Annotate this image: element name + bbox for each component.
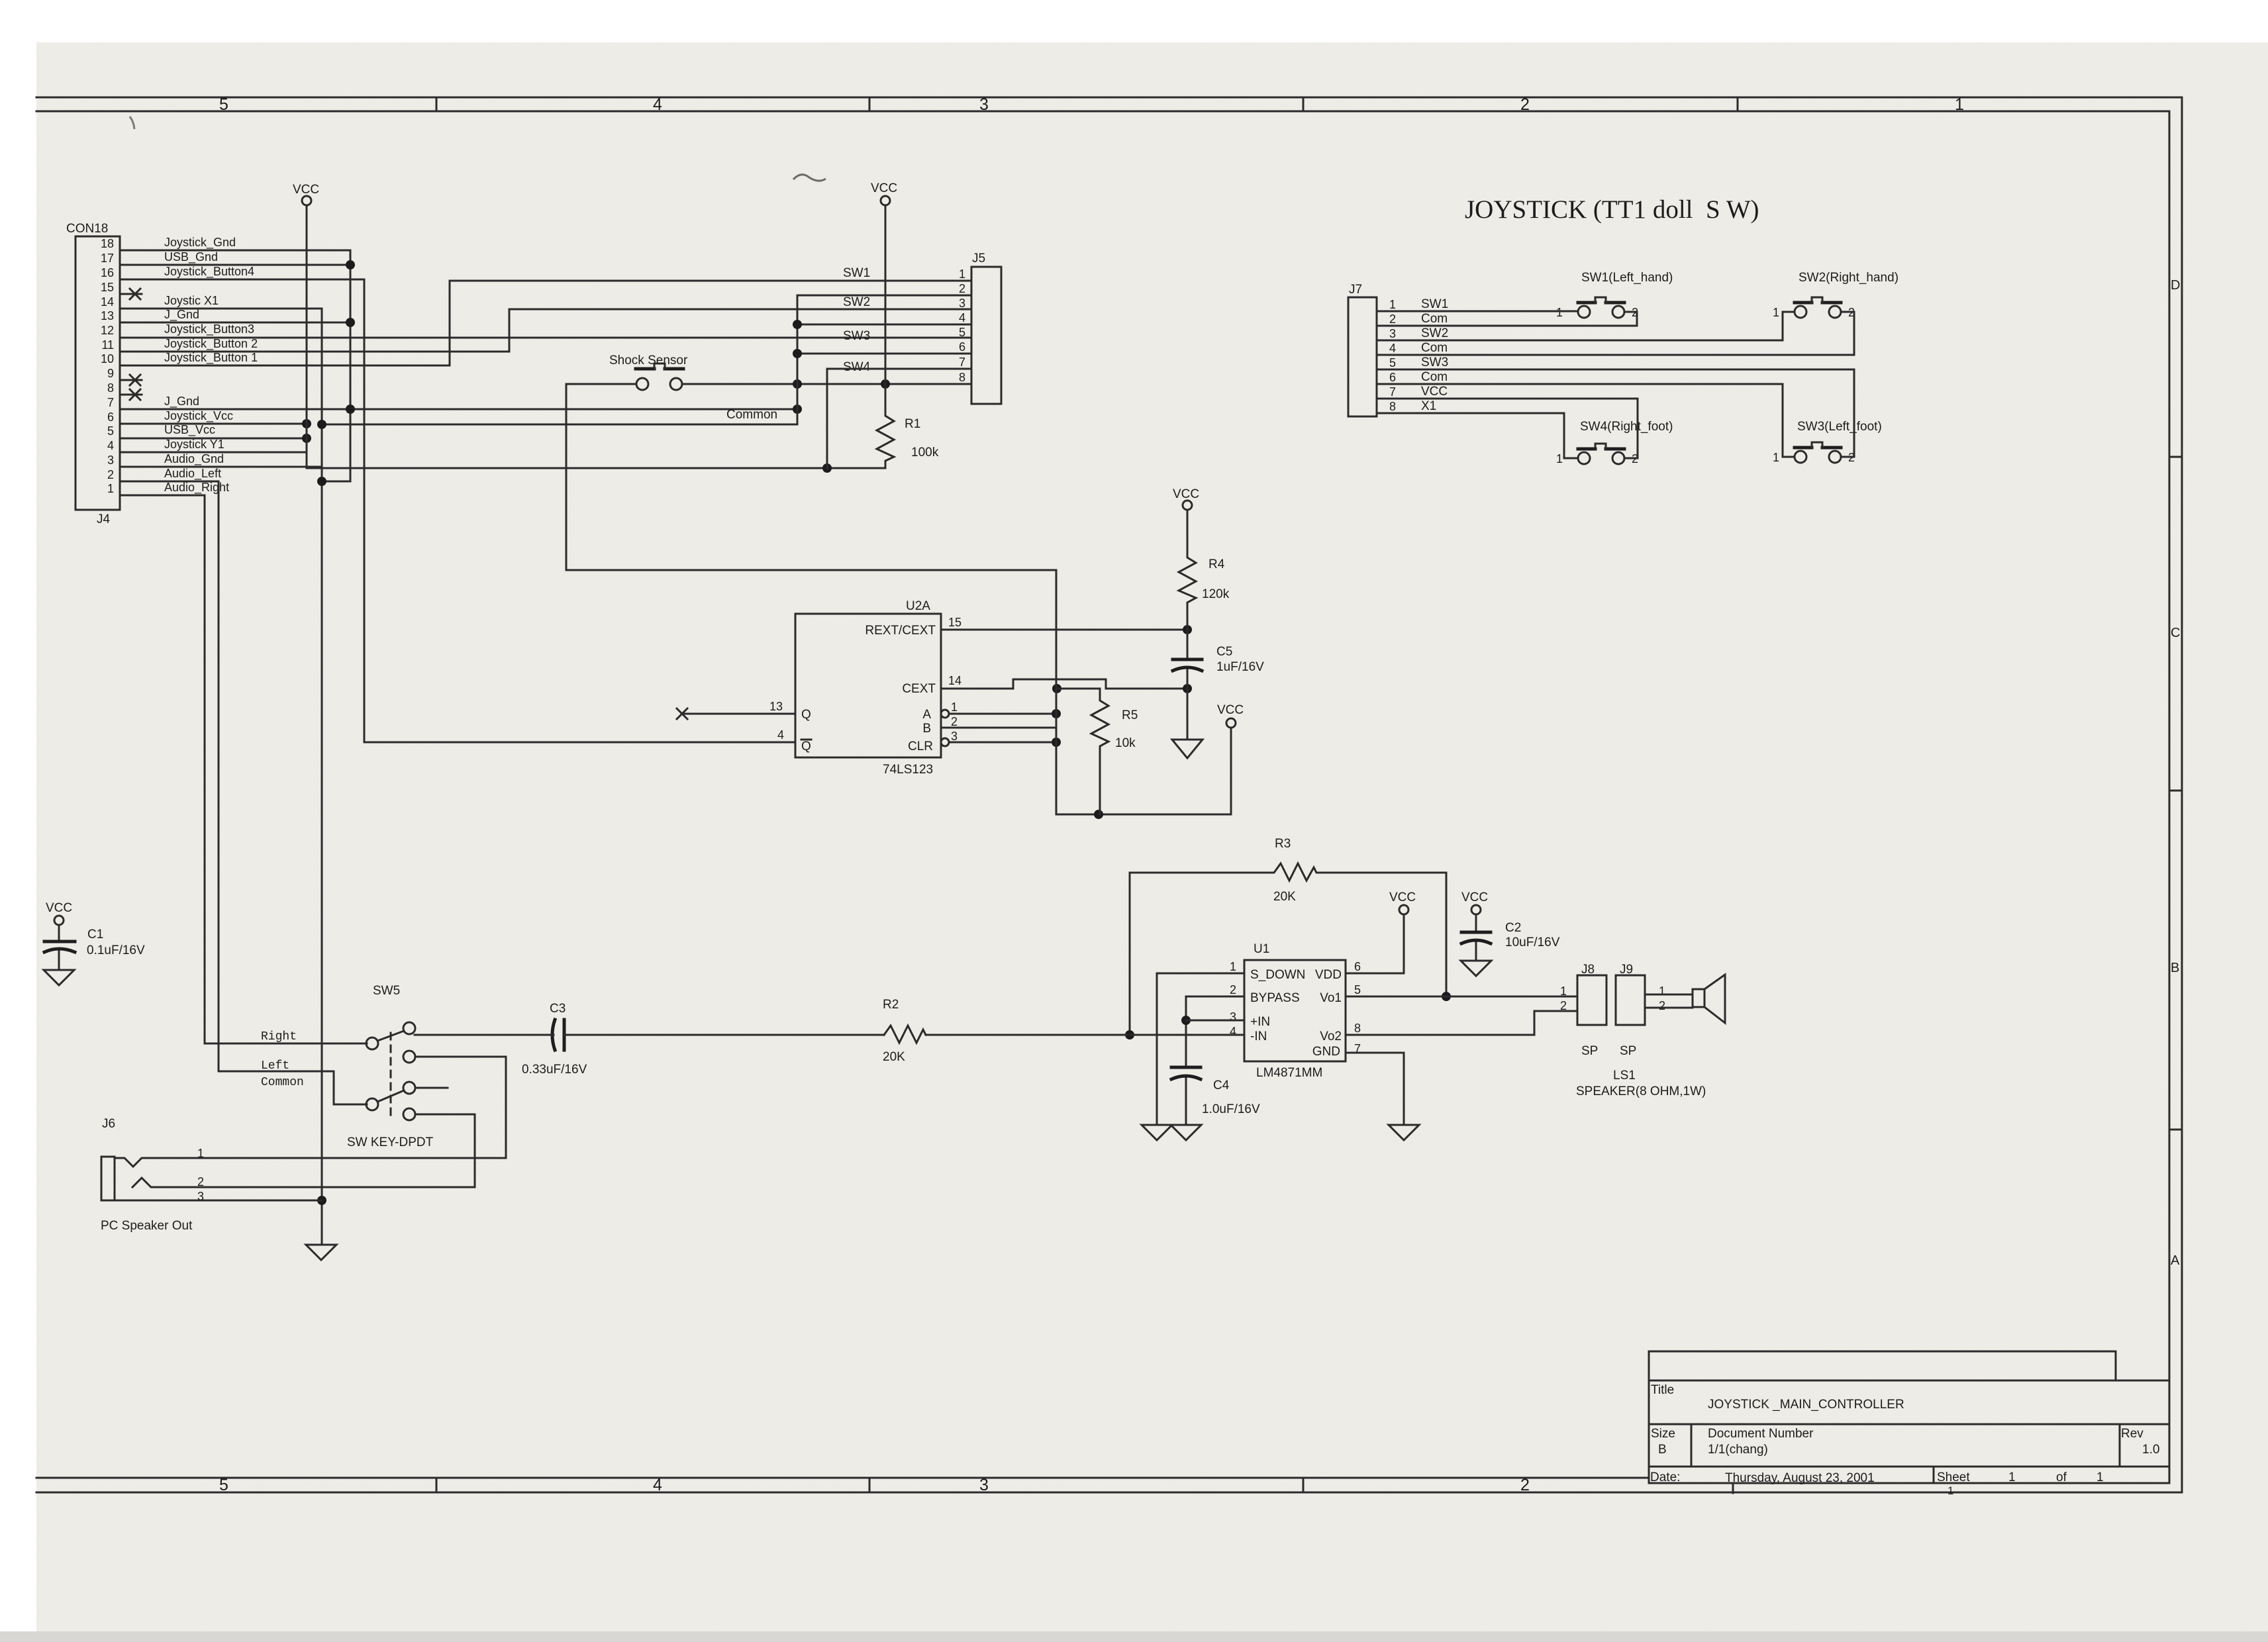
svg-text:J7: J7 [1349,283,1362,297]
svg-text:Vo1: Vo1 [1320,991,1342,1005]
svg-text:4: 4 [1389,342,1396,355]
wire USB_Gnd pin17 [120,260,355,269]
svg-text:7: 7 [959,356,965,369]
svg-text:74LS123: 74LS123 [883,763,933,777]
wire Joystic X1 down at 486 [120,309,326,1245]
svg-text:J8: J8 [1581,963,1595,977]
wire J5 pin8 shock sensor row [682,379,971,389]
power VCC above R4 [1173,487,1199,510]
svg-text:Com: Com [1421,341,1448,355]
svg-text:4: 4 [777,728,784,742]
connector J7 net labels [1421,297,1448,413]
connector J4 CON18 body [66,222,120,526]
resistor R1 [877,384,939,468]
svg-text:4: 4 [1230,1025,1236,1038]
svg-text:1: 1 [951,700,958,714]
power VCC at C2 [1461,891,1488,914]
svg-text:C1: C1 [87,928,103,942]
wire Joystick_Gnd pin18 to ground bus [120,250,350,481]
svg-text:6: 6 [959,340,965,354]
svg-text:C4: C4 [1213,1079,1230,1092]
svg-text:Joystick_Button 2: Joystick_Button 2 [164,337,258,351]
svg-text:CEXT: CEXT [902,682,936,696]
wire Audio_Gnd pin3 [120,466,322,468]
wire trigger vertical A/B/CLR [1056,570,1231,819]
connector J4 pin numbers [101,237,114,495]
svg-text:14: 14 [101,295,114,309]
wire pin3 +IN [1186,1020,1244,1022]
svg-text:Title: Title [1651,1383,1674,1397]
svg-text:2: 2 [959,282,965,295]
svg-text:X1: X1 [1421,399,1436,413]
svg-text:4: 4 [959,311,965,324]
svg-text:Right: Right [261,1030,297,1043]
wire J5 pin4 [797,324,971,326]
svg-text:3: 3 [959,297,965,310]
wire SW2 pin2 to J7 pin4 [1377,312,1854,355]
svg-text:8: 8 [1389,400,1396,413]
no-connect stub pin 15 [120,289,142,299]
wire R3 right leg to Vo1 [1442,873,1451,1001]
svg-text:A: A [2171,1253,2180,1268]
svg-text:Document Number: Document Number [1708,1427,1814,1441]
svg-text:Vo2: Vo2 [1320,1030,1342,1043]
wire USB_Vcc pin5 [120,434,311,443]
svg-text:5: 5 [1389,356,1396,369]
svg-text:1: 1 [1389,298,1396,311]
wire SW5 throw2 to J6 pin1 [150,1057,506,1158]
svg-text:R2: R2 [883,998,899,1012]
svg-text:SW KEY-DPDT: SW KEY-DPDT [347,1135,434,1149]
svg-text:+IN: +IN [1250,1015,1270,1029]
svg-text:1.0uF/16V: 1.0uF/16V [1202,1102,1260,1116]
svg-text:Sheet: Sheet [1937,1471,1970,1484]
svg-text:Joystick_Button3: Joystick_Button3 [164,322,254,336]
svg-text:8: 8 [107,381,114,395]
svg-text:14: 14 [948,674,961,687]
wire J9 pin1 to speaker [1645,994,1693,996]
svg-text:C2: C2 [1505,921,1521,935]
svg-text:SW2(Right_hand): SW2(Right_hand) [1799,271,1898,285]
svg-text:GND: GND [1312,1045,1340,1059]
resistor R3 feedback [1130,837,1446,904]
svg-text:0.1uF/16V: 0.1uF/16V [87,943,145,957]
capacitor C3 [522,1002,587,1077]
svg-text:Audio_Left: Audio_Left [164,467,221,481]
svg-text:JOYSTICK _MAIN_CONTROLLER: JOYSTICK _MAIN_CONTROLLER [1708,1398,1904,1412]
connector J7 pin numbers [1389,298,1396,413]
ground symbol S_DOWN [1142,1125,1172,1140]
connector J8 [1560,963,1606,1058]
pin13 Q no-connect [677,708,795,719]
svg-text:120k: 120k [1202,587,1230,601]
svg-text:1: 1 [1556,452,1563,465]
svg-text:Thursday, August 23, 2001: Thursday, August 23, 2001 [1725,1471,1875,1485]
svg-text:C5: C5 [1216,645,1232,659]
wire J5 pin7 SW4 [827,369,971,468]
ground symbol U1 GND [1389,1125,1419,1140]
svg-text:6: 6 [107,410,114,424]
svg-text:11: 11 [101,338,114,352]
wire J7 pin7 VCC to SW4 pin2 [1377,399,1638,458]
svg-text:R5: R5 [1122,708,1138,722]
svg-text:10k: 10k [1115,736,1136,750]
scan mark squiggle [793,175,826,181]
svg-text:2: 2 [1520,1476,1530,1494]
svg-text:LS1: LS1 [1613,1069,1636,1083]
svg-text:18: 18 [101,237,114,250]
wire pin8 Vo2 to J8 [1346,1011,1577,1035]
svg-text:REXT/CEXT: REXT/CEXT [865,624,936,638]
svg-text:1: 1 [1773,306,1779,319]
wire pin6 VDD [1346,914,1404,973]
svg-text:16: 16 [101,266,114,279]
capacitor C4 [1171,1067,1260,1125]
svg-text:1: 1 [1556,306,1563,319]
svg-text:1.0: 1.0 [2142,1443,2159,1457]
svg-text:Joystic X1: Joystic X1 [164,294,219,307]
U1 pin numbers [1230,960,1361,1055]
svg-text:VCC: VCC [871,181,897,195]
svg-text:3: 3 [1230,1010,1236,1024]
svg-text:1: 1 [1659,985,1665,998]
svg-text:Left: Left [261,1059,289,1073]
svg-text:C: C [2171,626,2180,640]
svg-text:B: B [922,722,931,736]
svg-text:2: 2 [1659,999,1665,1012]
capacitor C1 [44,901,145,970]
svg-text:15: 15 [101,281,114,294]
svg-text:CON18: CON18 [66,222,108,236]
svg-text:SP: SP [1620,1044,1636,1058]
net labels SW1-SW4 [843,266,871,374]
svg-text:R1: R1 [905,417,920,431]
resistor R2 [883,998,926,1064]
switch SW3 Left_foot [1773,420,1882,464]
svg-text:1: 1 [1230,960,1236,973]
svg-text:10: 10 [101,352,114,365]
wire pin7 GND [1346,1053,1404,1125]
svg-text:4: 4 [653,1476,662,1494]
svg-text:5: 5 [219,1476,228,1494]
pin B wire [941,727,1056,729]
svg-text:13: 13 [769,700,783,713]
svg-text:3: 3 [979,1476,989,1494]
wire shock sensor left leg [566,384,1056,570]
power VCC at VDD [1389,891,1416,914]
switch SW1 Left_hand [1556,271,1673,319]
svg-text:J5: J5 [972,252,985,266]
wire audio row C3 to R2 [415,1034,884,1036]
svg-text:VCC: VCC [1421,385,1448,399]
svg-text:SW5: SW5 [373,984,400,998]
IC U2A 74LS123 body [795,599,941,777]
connector J4 wire labels [164,236,258,495]
svg-text:SW1: SW1 [1421,297,1448,311]
svg-text:3: 3 [979,95,989,114]
svg-text:SPEAKER(8 OHM,1W): SPEAKER(8 OHM,1W) [1576,1085,1706,1098]
ground symbol C2 [1461,961,1491,976]
wire Joystick_Button 1 up to SW1 row [120,281,971,365]
wire J5 pin2 [797,295,971,297]
svg-text:VCC: VCC [1173,487,1199,501]
svg-text:17: 17 [101,252,114,265]
svg-text:SW3: SW3 [843,329,870,343]
svg-text:J_Gnd: J_Gnd [164,395,199,409]
svg-text:1: 1 [2008,1471,2016,1484]
svg-text:VCC: VCC [46,901,72,915]
svg-text:Com: Com [1421,312,1448,326]
svg-text:1: 1 [1955,95,1964,114]
zone letters right [2171,278,2180,1268]
svg-text:VDD: VDD [1315,968,1342,982]
svg-text:2: 2 [197,1175,204,1188]
svg-text:Com: Com [1421,370,1448,384]
connector J9 [1616,963,1665,1058]
svg-text:Joystick_Button 1: Joystick_Button 1 [164,351,258,365]
wire pin2 BYPASS down [1181,996,1244,1067]
wire J_Gnd pin13 [120,318,355,327]
wire SW1 pin2 to J7 pin2 [1377,312,1637,326]
svg-text:3: 3 [951,730,958,743]
svg-text:of: of [2056,1471,2067,1484]
pin A with bubble [941,709,1061,718]
svg-text:4: 4 [653,95,662,114]
sheet title text [1465,195,1759,224]
svg-text:JOYSTICK (TT1 doll S W): JOYSTICK (TT1 doll S W) [1465,195,1759,224]
speaker LS1 [1576,975,1725,1098]
resistor R5 [1057,689,1138,814]
capacitor C5 [1173,630,1264,689]
svg-text:2: 2 [107,468,114,481]
svg-text:4: 4 [107,439,114,452]
svg-text:3: 3 [107,454,114,467]
svg-text:8: 8 [1354,1022,1361,1035]
no-connect stub pin 8 [120,389,142,400]
wire SW5 throw4 to J6 pin2 [154,1114,475,1187]
connector J7 body [1348,283,1377,416]
IC U1 LM4871MM body [1244,942,1346,1080]
svg-text:Joystick Y1: Joystick Y1 [164,438,224,451]
svg-text:VCC: VCC [1389,891,1416,904]
svg-text:R4: R4 [1208,557,1225,571]
svg-text:PC Speaker Out: PC Speaker Out [101,1219,193,1233]
svg-text:SW2: SW2 [1421,326,1448,340]
capacitor C2 [1461,914,1560,961]
U1 pin labels inside [1250,968,1342,1059]
svg-text:Joystick_Gnd: Joystick_Gnd [164,236,236,250]
svg-text:1/1(chang): 1/1(chang) [1708,1443,1768,1457]
wire pin1 S_DOWN to ground [1157,973,1244,1125]
svg-text:3: 3 [1389,327,1396,340]
resistor R4 [1179,510,1230,630]
svg-text:20K: 20K [883,1050,905,1064]
wire SW2 row to J5 pin3 [509,309,971,311]
svg-text:2: 2 [1230,983,1236,996]
switch SW2 Right_hand [1773,271,1898,319]
svg-text:9: 9 [107,367,114,380]
zone numbers top [219,95,1964,114]
svg-text:USB_Vcc: USB_Vcc [164,423,215,437]
wire VCC column down [306,205,308,452]
switch SW4 Right_foot [1556,420,1673,465]
svg-text:15: 15 [948,616,961,629]
svg-text:100k: 100k [911,446,939,459]
ground symbol under C5 [1172,740,1203,758]
switch shock sensor [566,354,688,390]
svg-text:-IN: -IN [1250,1030,1267,1043]
power VCC at R5 bottom [1217,703,1244,728]
wire Joystick_Vcc pin6 [120,419,311,428]
wire C5 to ground [1187,689,1189,740]
svg-text:Q: Q [801,708,811,722]
svg-text:U2A: U2A [906,599,930,613]
svg-text:5: 5 [959,326,965,339]
U2A pin labels inside [801,624,936,753]
svg-text:2: 2 [951,715,958,728]
wire Joystick_Button4 pin16 to U2A Qbar [120,279,795,742]
wire J5 pin6 [797,353,971,355]
svg-text:J_Gnd: J_Gnd [164,308,199,322]
wire Audio_Right pin1 down to SW5 Right [120,495,367,1043]
svg-text:0.33uF/16V: 0.33uF/16V [522,1063,587,1077]
U2A pin numbers [769,616,961,743]
svg-text:5: 5 [1354,983,1361,996]
wire Joystick_Button3 / SW3 row to J5 pin5 [120,337,971,339]
svg-text:CLR: CLR [908,740,933,753]
svg-text:S_DOWN: S_DOWN [1250,968,1305,982]
svg-text:D: D [2171,278,2180,293]
svg-text:J4: J4 [97,512,111,526]
svg-text:3: 3 [197,1190,204,1203]
svg-text:SW1(Left_hand): SW1(Left_hand) [1581,271,1673,285]
svg-text:8: 8 [959,371,965,384]
svg-text:LM4871MM: LM4871MM [1256,1066,1322,1080]
svg-text:J9: J9 [1620,963,1633,977]
wire R2 to -IN pin4 [926,1034,1244,1036]
svg-text:1: 1 [1948,1484,1953,1497]
svg-text:SW3: SW3 [1421,356,1448,369]
svg-text:7: 7 [107,396,114,409]
power VCC symbol left column [293,183,319,205]
power VCC above J5 [871,181,897,384]
svg-text:2: 2 [1389,313,1396,326]
svg-text:Common: Common [261,1076,304,1089]
svg-text:B: B [1658,1443,1667,1457]
svg-text:1: 1 [107,482,114,495]
svg-text:Audio_Gnd: Audio_Gnd [164,452,224,466]
svg-text:1: 1 [197,1147,204,1160]
svg-text:13: 13 [101,309,114,322]
svg-text:6: 6 [1389,371,1396,384]
wire Joystick_Button 2 up to SW2 row [120,309,509,352]
svg-text:SW3(Left_foot): SW3(Left_foot) [1797,420,1882,434]
svg-text:12: 12 [101,324,114,337]
svg-text:1: 1 [1560,985,1567,998]
wire J7 pin5 to SW3 pin2 [1377,369,1854,457]
svg-text:1: 1 [2096,1471,2104,1484]
svg-text:USB_Gnd: USB_Gnd [164,250,218,264]
svg-text:VCC: VCC [293,183,319,197]
svg-text:1: 1 [959,267,965,281]
no-connect stub pin 9 [120,375,142,385]
connector J6 phone jack [101,1117,321,1233]
wire J7 pin8 X1 to SW4 pin1 [1377,413,1578,458]
wire pin5 Vo1 to J8 [1346,996,1577,998]
svg-text:SP: SP [1581,1044,1598,1058]
node labels Right Left Common [261,1030,304,1089]
zone numbers bottom [219,1476,1953,1497]
svg-text:5: 5 [107,424,114,438]
wire J7 pin3 to SW2 [1377,312,1795,340]
svg-text:A: A [922,708,931,722]
svg-text:2: 2 [1520,95,1530,114]
node Common label [726,408,777,422]
wire Audio_Left pin2 down to SW5 Left [120,481,367,1104]
title block outline [1649,1351,2169,1493]
svg-text:Size: Size [1651,1427,1675,1441]
ground symbol under C1 [44,970,74,985]
svg-text:1uF/16V: 1uF/16V [1216,660,1264,674]
connector J5 body [971,252,1001,404]
svg-text:6: 6 [1354,960,1361,973]
svg-text:SW2: SW2 [843,295,870,309]
svg-text:SW1: SW1 [843,266,870,280]
svg-text:BYPASS: BYPASS [1250,991,1300,1005]
svg-text:Q: Q [801,740,811,753]
wire pin14 CEXT with hop [941,679,1192,693]
svg-text:U1: U1 [1254,942,1269,956]
svg-text:Shock Sensor: Shock Sensor [609,354,688,367]
svg-text:Rev: Rev [2121,1427,2144,1441]
svg-text:VCC: VCC [1461,891,1488,904]
wire Joystick Y1 pin4 to R1 bottom row [120,452,885,473]
wire J_Gnd pin7 [120,405,802,414]
svg-text:VCC: VCC [1217,703,1244,717]
ground symbol C4 [1171,1125,1201,1140]
svg-text:J6: J6 [102,1117,115,1131]
wire J9 pin2 to speaker [1645,1007,1693,1009]
svg-text:10uF/16V: 10uF/16V [1505,936,1560,949]
svg-text:20K: 20K [1273,890,1296,904]
svg-text:SW4: SW4 [843,360,871,374]
svg-text:7: 7 [1389,385,1396,399]
svg-text:2: 2 [1560,999,1567,1012]
wire J7 pin1 to SW1 [1377,311,1578,313]
svg-text:C3: C3 [550,1002,566,1016]
svg-text:SW4(Right_foot): SW4(Right_foot) [1580,420,1673,434]
connector J5 pin numbers [959,267,965,384]
ground symbol below J6 [306,1245,336,1260]
svg-text:B: B [2171,961,2179,975]
wire pin15 REXT/CEXT [941,625,1192,634]
wire common bus vertical [317,295,802,429]
wire R3 left leg to -IN node [1125,873,1134,1039]
svg-text:5: 5 [219,95,228,114]
wire J7 pin6 to SW3 pin1 [1377,384,1795,457]
switch SW5 DPDT [347,984,448,1149]
svg-text:Joystick_Button4: Joystick_Button4 [164,265,254,279]
scan mark top-left [130,117,134,129]
svg-text:Date:: Date: [1650,1471,1680,1484]
svg-text:1: 1 [1773,451,1779,464]
svg-text:Joystick_Vcc: Joystick_Vcc [164,409,233,423]
title block texts [1650,1383,2159,1485]
svg-text:Common: Common [726,408,777,422]
pin CLR with bubble [941,738,1061,747]
svg-text:R3: R3 [1275,837,1291,851]
